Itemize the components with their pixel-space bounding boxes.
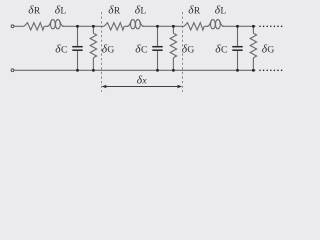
junction node top of δC section 3 [236,25,239,28]
resistor δG (shunt) section 3 [252,26,254,33]
resistor δR section 3 [184,23,204,30]
wire continuation ellipsis top [259,26,282,28]
junction node bottom of δG section 2 [172,69,175,72]
wire top rail segment [142,25,184,27]
dimension line δx with arrows [106,86,178,88]
resistor δR section 1 [24,23,44,30]
wire continuation ellipsis bottom [259,70,282,72]
junction node top of δC section 1 [76,25,79,28]
capacitor δC section 3 [237,26,239,46]
terminal, input top [11,25,14,28]
capacitor δC section 1 [77,26,79,46]
junction node bottom of δG section 3 [252,69,255,72]
inductor δL section 3 [207,20,212,26]
resistor δG (shunt) section 1 [92,26,94,33]
svg-text:δC: δC [215,44,227,56]
svg-text:δL: δL [55,5,67,17]
dimension arrowhead left [102,85,107,89]
wire bottom rail [14,69,255,71]
svg-text:δG: δG [182,44,195,56]
capacitor δC section 2 [157,26,159,46]
junction node bottom of δC section 3 [236,69,239,72]
svg-text:δR: δR [108,5,121,17]
wire [44,25,48,27]
svg-text:δG: δG [262,44,275,56]
wire top rail segment [62,25,104,27]
terminal, input bottom [11,69,14,72]
section boundary dashed line 2 [181,12,183,92]
junction node top of δC section 2 [156,25,159,28]
wire [124,25,128,27]
junction node bottom of δC section 1 [76,69,79,72]
wire [204,25,208,27]
junction node top of δG section 3 [252,25,255,28]
junction node top of δG section 1 [92,25,95,28]
svg-text:δR: δR [28,5,41,17]
inductor δL section 1 [47,20,52,26]
junction node top of δG section 2 [172,25,175,28]
svg-text:δR: δR [188,5,201,17]
wire top rail segment [222,25,255,27]
svg-text:δC: δC [55,44,67,56]
dimension arrowhead right [177,85,182,89]
svg-text:δC: δC [135,44,147,56]
section boundary dashed line 1 [100,12,102,92]
svg-text:δL: δL [215,5,227,17]
junction node bottom of δC section 2 [156,69,159,72]
resistor δR section 2 [104,23,124,30]
resistor δG (shunt) section 2 [172,26,174,33]
svg-text:δG: δG [102,44,115,56]
wire top from input terminal [14,25,24,27]
svg-text:δx: δx [137,74,148,86]
inductor δL section 2 [127,20,132,26]
svg-text:δL: δL [135,5,147,17]
junction node bottom of δG section 1 [92,69,95,72]
